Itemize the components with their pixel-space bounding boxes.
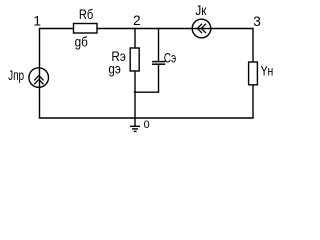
wire top-left horizontal node1 to R6 <box>40 28 74 30</box>
wire junction horizontal Rэ-Cэ <box>134 91 159 93</box>
wire Cэ bottom vertical <box>158 64 160 92</box>
resistor Rб <box>74 7 98 50</box>
wire Cэ branch vertical top <box>158 28 160 62</box>
svg-text:Jк: Jк <box>195 3 207 18</box>
current source Jк <box>192 3 211 38</box>
svg-text:0: 0 <box>144 119 150 131</box>
load Yн <box>249 62 274 85</box>
current source Jпр <box>8 68 48 88</box>
svg-text:3: 3 <box>253 14 261 29</box>
ground <box>130 118 140 131</box>
svg-text:2: 2 <box>133 13 141 28</box>
wire node2 vertical down to Rэ <box>134 28 136 48</box>
wire Rэ bottom down to bus <box>134 71 136 118</box>
capacitor Cэ <box>152 51 176 66</box>
resistor Rэ <box>108 48 139 76</box>
svg-text:Jпр: Jпр <box>8 68 24 83</box>
svg-text:gб: gб <box>75 35 88 50</box>
svg-text:Rб: Rб <box>79 7 94 22</box>
svg-text:1: 1 <box>33 14 41 29</box>
svg-text:Yн: Yн <box>261 64 274 79</box>
svg-text:gэ: gэ <box>108 61 121 76</box>
wire bottom bus <box>39 117 254 119</box>
wire Yн bottom down to bus <box>252 85 254 118</box>
wire top horizontal R6 to node3 <box>97 28 253 30</box>
wire left vertical node1 down <box>39 28 41 118</box>
svg-text:Cэ: Cэ <box>164 51 177 66</box>
wire node3 vertical down to Yн <box>252 28 254 62</box>
